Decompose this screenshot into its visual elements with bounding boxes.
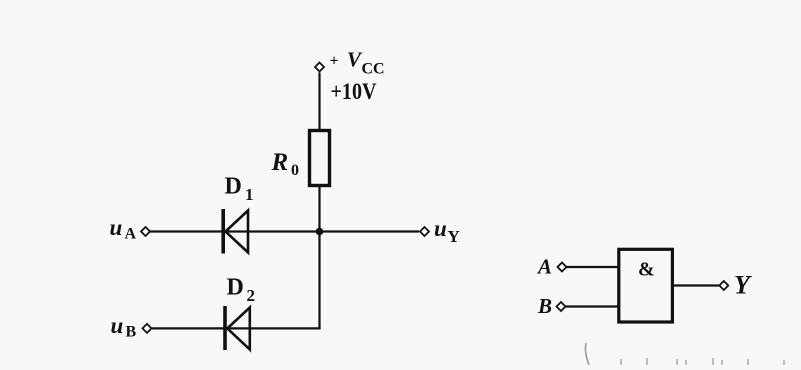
diode D1	[223, 209, 248, 254]
wire uA row	[150, 230, 419, 232]
node junction	[316, 228, 324, 236]
AND gate box U1	[619, 249, 673, 322]
terminal B	[557, 302, 566, 311]
wire uB row	[152, 327, 321, 329]
label uY	[434, 216, 460, 246]
label D2	[227, 274, 256, 304]
svg-text:A: A	[125, 226, 137, 243]
wire Vcc to resistor	[318, 73, 320, 131]
terminal Y	[719, 281, 728, 290]
svg-text:u: u	[111, 313, 124, 338]
svg-text:0: 0	[291, 162, 299, 179]
svg-text:D: D	[227, 274, 244, 300]
label uA	[110, 215, 137, 243]
svg-text:2: 2	[247, 286, 256, 305]
svg-text:B: B	[126, 324, 137, 341]
svg-text:Y: Y	[734, 271, 752, 300]
svg-text:1: 1	[245, 185, 254, 204]
wire A input	[567, 266, 620, 268]
svg-text:&: &	[638, 259, 655, 281]
label +Vcc	[330, 47, 385, 77]
wire resistor to D2 corner (vertical rail)	[318, 185, 320, 330]
svg-text:B: B	[537, 294, 552, 318]
svg-text:+: +	[330, 53, 339, 70]
svg-text:A: A	[536, 254, 552, 278]
faint artifact ticks	[621, 358, 784, 365]
svg-text:u: u	[110, 215, 123, 240]
label D1	[225, 174, 254, 204]
svg-text:Y: Y	[448, 227, 460, 246]
label uB	[111, 313, 137, 341]
svg-text:CC: CC	[362, 61, 385, 78]
label R0	[271, 149, 300, 179]
resistor R0	[310, 131, 330, 186]
svg-text:R: R	[271, 149, 289, 176]
diode D2	[225, 306, 250, 350]
terminal +Vcc	[315, 63, 324, 72]
terminal uA	[141, 227, 150, 236]
terminal A	[558, 263, 567, 272]
terminal uB	[143, 324, 152, 333]
faint artifact curve	[585, 343, 589, 365]
svg-text:D: D	[225, 174, 242, 200]
terminal uY	[420, 227, 429, 236]
wire Y output	[674, 284, 719, 286]
wire B input	[566, 305, 620, 307]
svg-text:+10V: +10V	[331, 79, 377, 104]
svg-text:u: u	[434, 216, 447, 241]
